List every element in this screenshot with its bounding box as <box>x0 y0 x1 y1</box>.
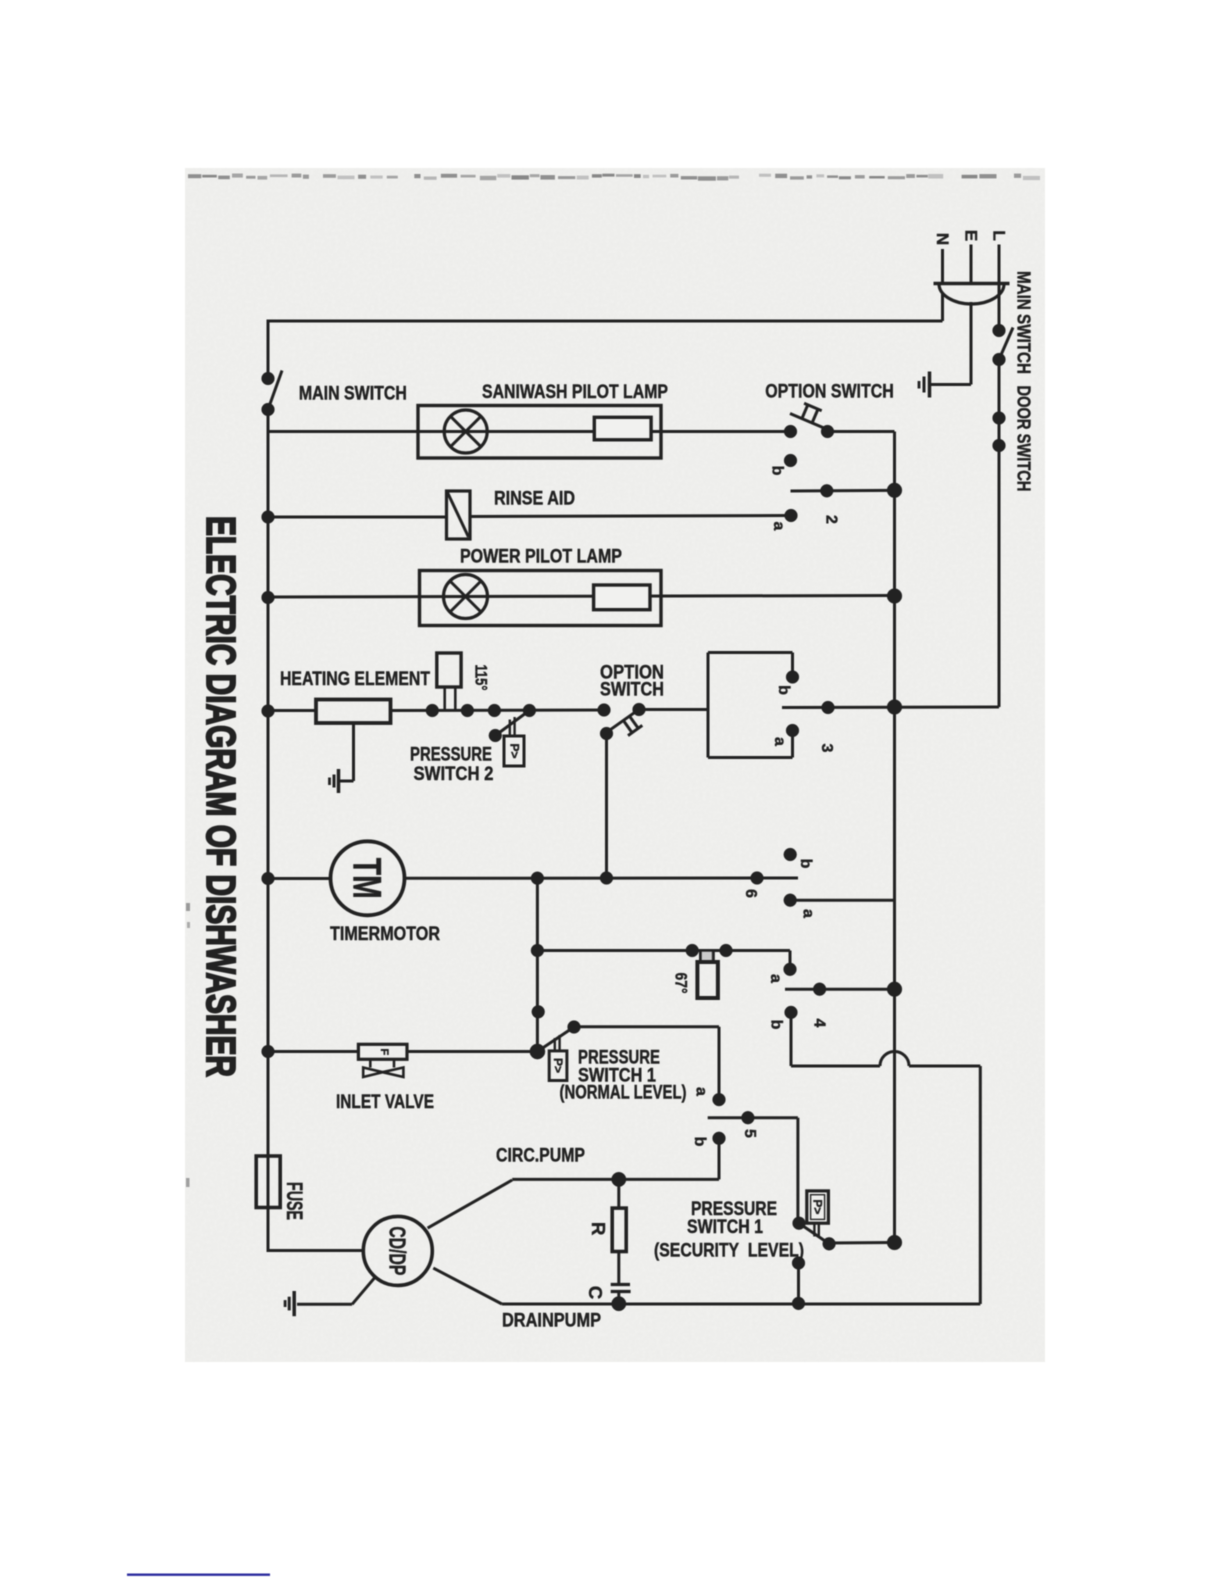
svg-text:FUSE: FUSE <box>282 1182 307 1220</box>
svg-text:b: b <box>691 1137 708 1147</box>
svg-text:3: 3 <box>818 744 835 753</box>
svg-text:a: a <box>693 1087 710 1096</box>
svg-text:CIRC.PUMP: CIRC.PUMP <box>496 1145 585 1167</box>
svg-text:CD/DP: CD/DP <box>384 1226 410 1275</box>
svg-text:P>: P> <box>507 743 521 758</box>
svg-text:R: R <box>588 1222 609 1235</box>
svg-text:a: a <box>800 909 817 918</box>
svg-text:POWER PILOT LAMP: POWER PILOT LAMP <box>460 546 622 568</box>
svg-text:F: F <box>378 1048 390 1055</box>
svg-text:b: b <box>769 466 786 476</box>
svg-text:b: b <box>775 685 792 695</box>
svg-text:MAIN SWITCH: MAIN SWITCH <box>299 383 407 405</box>
svg-text:DOOR SWITCH: DOOR SWITCH <box>1014 386 1034 492</box>
svg-text:P>: P> <box>811 1199 825 1214</box>
svg-text:L: L <box>990 230 1009 240</box>
svg-text:DRAINPUMP: DRAINPUMP <box>502 1310 601 1332</box>
svg-text:TM: TM <box>345 858 389 899</box>
svg-text:ELECTRIC DIAGRAM OF DISHWASHER: ELECTRIC DIAGRAM OF DISHWASHER <box>198 516 244 1077</box>
svg-text:115°: 115° <box>472 665 491 691</box>
svg-text:C: C <box>585 1286 606 1299</box>
svg-text:a: a <box>770 522 787 531</box>
svg-text:67°: 67° <box>672 973 691 994</box>
svg-text:N: N <box>933 233 952 245</box>
svg-text:SANIWASH PILOT LAMP: SANIWASH PILOT LAMP <box>482 381 668 403</box>
svg-text:a: a <box>767 974 784 983</box>
svg-text:SWITCH 1: SWITCH 1 <box>687 1216 763 1238</box>
svg-text:INLET VALVE: INLET VALVE <box>336 1091 434 1113</box>
svg-text:5: 5 <box>741 1129 758 1138</box>
svg-text:SWITCH: SWITCH <box>600 679 664 701</box>
svg-text:RINSE AID: RINSE AID <box>494 488 575 510</box>
svg-text:6: 6 <box>742 889 759 898</box>
svg-text:TIMERMOTOR: TIMERMOTOR <box>330 923 440 945</box>
svg-text:a: a <box>771 737 788 746</box>
svg-text:(SECURITY LEVEL): (SECURITY LEVEL) <box>654 1240 804 1262</box>
svg-text:OPTION SWITCH: OPTION SWITCH <box>765 381 894 403</box>
svg-text:2: 2 <box>823 515 840 524</box>
svg-text:b: b <box>797 859 814 869</box>
svg-text:SWITCH 2: SWITCH 2 <box>414 763 494 785</box>
svg-text:(NORMAL LEVEL): (NORMAL LEVEL) <box>560 1082 687 1104</box>
svg-text:b: b <box>767 1020 784 1030</box>
svg-text:4: 4 <box>811 1019 828 1028</box>
svg-text:HEATING ELEMENT: HEATING ELEMENT <box>280 668 430 690</box>
svg-text:MAIN SWITCH: MAIN SWITCH <box>1014 271 1034 374</box>
svg-text:P>: P> <box>551 1058 565 1073</box>
svg-text:E: E <box>962 230 981 241</box>
